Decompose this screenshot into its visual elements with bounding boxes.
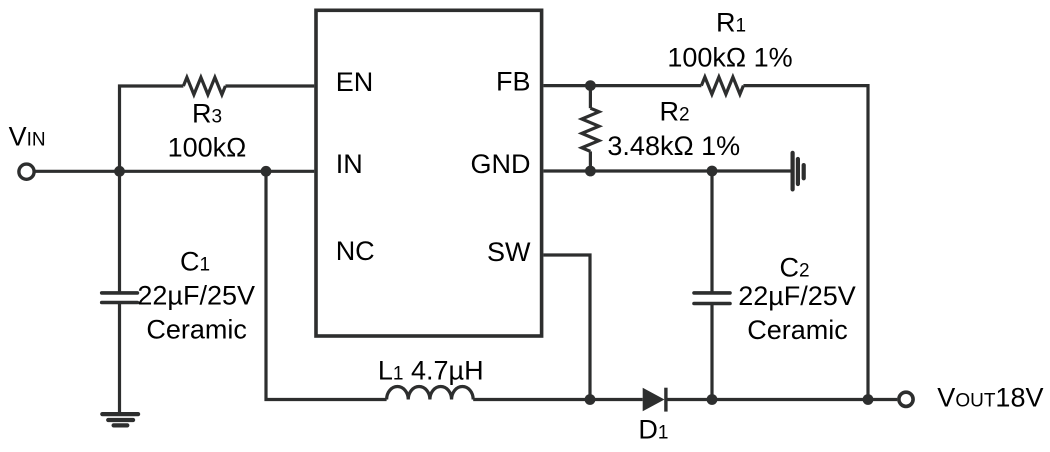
- node VOUT terminal: [899, 392, 913, 406]
- svg-text:Ceramic: Ceramic: [747, 315, 848, 345]
- svg-text:FB: FB: [496, 66, 531, 96]
- svg-text:SW: SW: [487, 237, 531, 267]
- junction output node: [863, 394, 874, 405]
- svg-text:R1: R1: [716, 8, 746, 38]
- node VIN terminal: [19, 164, 34, 179]
- resistor R2: [589, 86, 592, 109]
- svg-text:Ceramic: Ceramic: [146, 315, 247, 345]
- junction SW node: [585, 394, 596, 405]
- svg-text:NC: NC: [336, 236, 375, 266]
- wire GND pin to ground: [543, 169, 790, 172]
- svg-text:GND: GND: [471, 149, 531, 179]
- capacitor C2: [710, 171, 713, 293]
- wire VIN to IN pin: [35, 170, 314, 173]
- wire node A up to R3: [120, 86, 184, 171]
- svg-text:C1: C1: [180, 247, 210, 277]
- svg-text:3.48kΩ 1%: 3.48kΩ 1%: [607, 131, 740, 161]
- junction R2 bottom node: [585, 166, 596, 177]
- inductor L1: [387, 386, 474, 399]
- diode D1: [643, 388, 665, 412]
- wire D1 cathode to VOUT: [666, 398, 897, 401]
- junction C2 bottom node: [707, 394, 718, 405]
- wire R3 to EN pin: [225, 84, 314, 87]
- svg-text:EN: EN: [336, 67, 374, 97]
- svg-text:L1 4.7µH: L1 4.7µH: [378, 356, 484, 386]
- svg-text:D1: D1: [638, 415, 668, 445]
- ground (left, C1): [102, 414, 138, 425]
- svg-text:22µF/25V: 22µF/25V: [738, 281, 856, 311]
- svg-text:R3: R3: [192, 99, 222, 129]
- resistor R1: [701, 77, 743, 94]
- svg-text:100kΩ 1%: 100kΩ 1%: [667, 42, 792, 72]
- svg-text:VOUT18V: VOUT18V: [937, 383, 1043, 413]
- wire L1 to diode D1 anode: [473, 398, 643, 401]
- svg-text:C2: C2: [779, 253, 809, 283]
- junction input node A: [114, 166, 125, 177]
- junction FB node: [585, 80, 596, 91]
- wire SW pin stub: [543, 255, 590, 400]
- svg-text:IN: IN: [336, 149, 363, 179]
- ground (right, GND pin): [793, 153, 804, 190]
- resistor R3: [183, 77, 225, 94]
- wire node B down to bottom rail: [266, 171, 387, 399]
- junction node B (to inductor branch): [261, 166, 272, 177]
- wire R1 to output rail: [743, 86, 868, 400]
- svg-text:R2: R2: [660, 96, 690, 126]
- op-amp U1 (regulator IC body): [316, 10, 542, 336]
- wire FB pin to R1: [543, 84, 701, 87]
- svg-text:100kΩ: 100kΩ: [168, 132, 247, 162]
- capacitor C1: [118, 171, 121, 293]
- svg-text:22µF/25V: 22µF/25V: [137, 280, 255, 310]
- svg-text:VIN: VIN: [9, 121, 46, 151]
- junction C2 top node: [707, 166, 718, 177]
